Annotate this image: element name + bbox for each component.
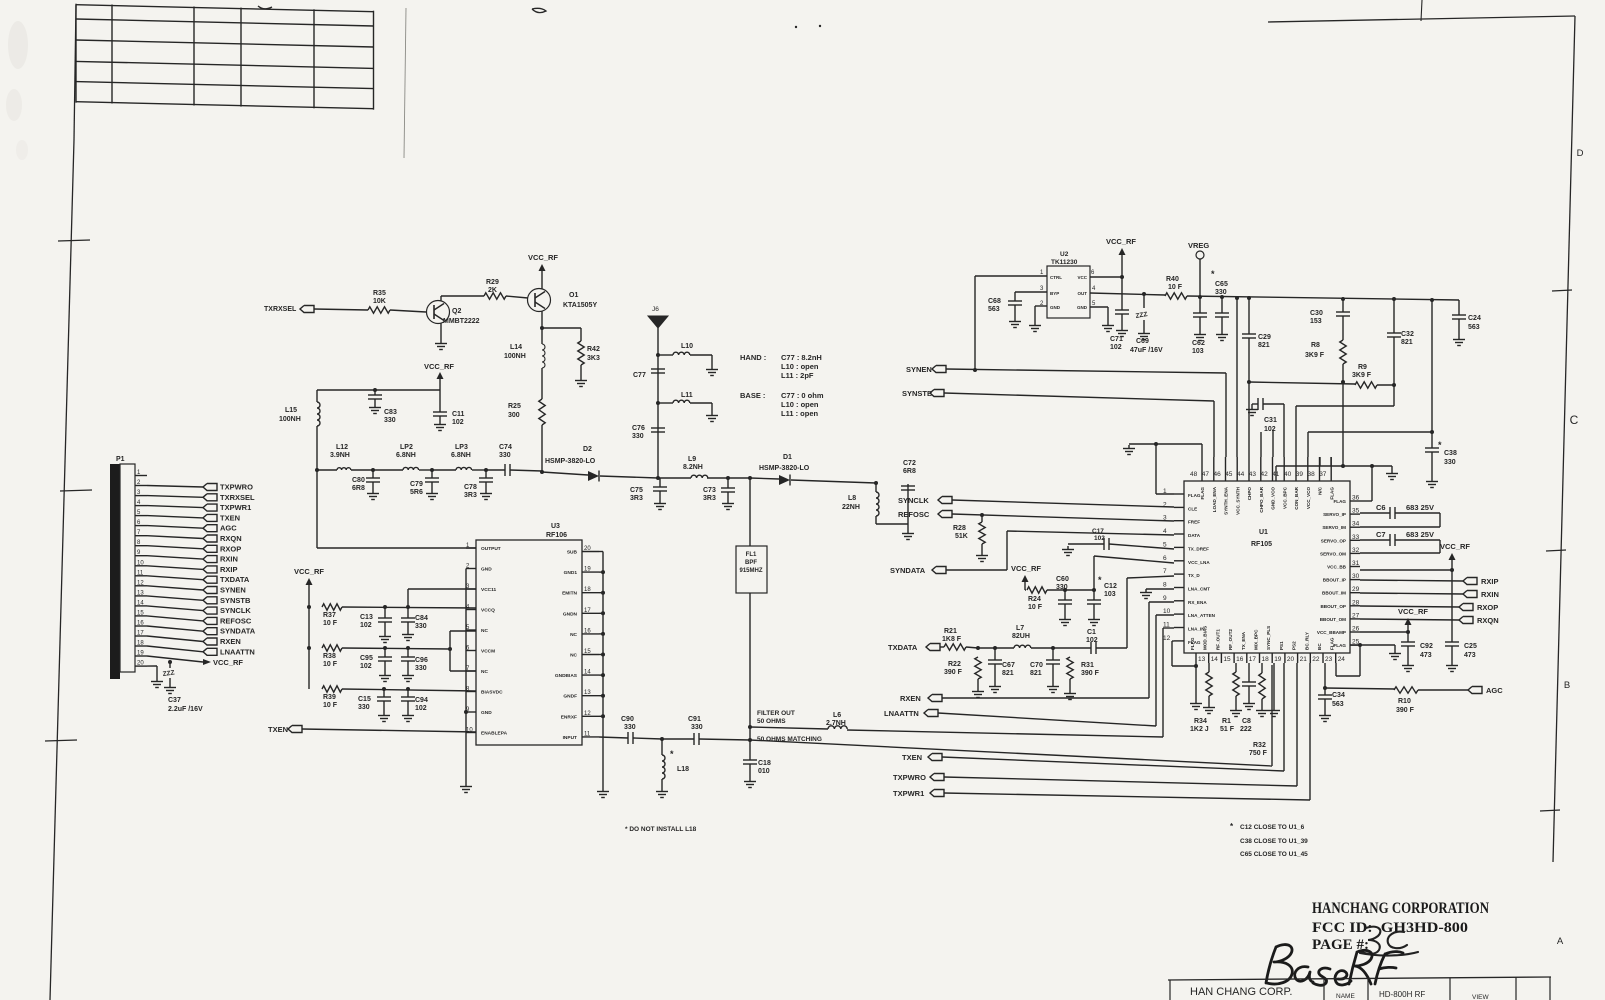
svg-text:330: 330 [1444,459,1456,466]
svg-text:VCCM: VCCM [481,649,495,655]
svg-text:683 25V: 683 25V [1406,530,1434,539]
svg-text:FLAG: FLAG [1333,643,1346,648]
svg-text:C77 : 8.2nH: C77 : 8.2nH [781,353,822,362]
svg-text:KTA1505Y: KTA1505Y [563,302,597,309]
svg-text:CHPO_BAR: CHPO_BAR [1259,486,1264,512]
svg-text:5: 5 [1163,541,1167,548]
svg-text:U2: U2 [1060,251,1069,258]
svg-text:10 F: 10 F [1028,604,1043,611]
svg-text:2.7NH: 2.7NH [826,720,846,727]
svg-text:1K8 F: 1K8 F [942,636,962,643]
svg-text:19: 19 [137,651,144,657]
svg-text:R25: R25 [508,403,521,410]
svg-text:AGC: AGC [1486,686,1503,695]
svg-text:VREG: VREG [1188,241,1209,250]
svg-text:45: 45 [1225,471,1233,478]
svg-text:12: 12 [137,580,144,586]
svg-text:821: 821 [1401,339,1413,346]
svg-text:13: 13 [1198,656,1206,663]
svg-text:C75: C75 [630,487,643,494]
svg-text:D1: D1 [783,454,792,461]
svg-text:473: 473 [1464,652,1476,659]
svg-text:R22: R22 [948,661,961,668]
svg-text:C90: C90 [621,716,634,723]
svg-text:SYNDATA: SYNDATA [890,566,926,575]
svg-text:29: 29 [1352,586,1360,593]
svg-text:10 F: 10 F [1168,284,1183,291]
svg-text:RXOP: RXOP [1477,603,1498,612]
svg-text:GNDF: GNDF [563,694,577,700]
svg-text:BPF: BPF [745,560,757,566]
svg-text:VCC_RF: VCC_RF [294,567,324,576]
svg-text:U3: U3 [551,523,560,530]
svg-text:TXRXSEL: TXRXSEL [264,306,297,313]
svg-text:14: 14 [584,670,591,676]
svg-text:6R8: 6R8 [903,468,916,475]
svg-text:50 OHMS: 50 OHMS [757,718,786,725]
svg-text:VIEW: VIEW [1472,994,1489,1000]
svg-text:17: 17 [584,608,591,614]
svg-text:9: 9 [1163,595,1167,602]
svg-text:TXEN: TXEN [268,725,288,734]
svg-text:R38: R38 [323,653,336,660]
svg-text:R24: R24 [1028,596,1041,603]
svg-text:821: 821 [1258,342,1270,349]
svg-text:D: D [1577,148,1584,159]
svg-text:C68: C68 [988,298,1001,305]
svg-text:30: 30 [1352,573,1360,580]
svg-text:L14: L14 [510,344,522,351]
svg-text:C65: C65 [1215,281,1228,288]
svg-text:L10 : open: L10 : open [781,362,819,371]
svg-text:RF_OUT2: RF_OUT2 [1228,629,1233,650]
svg-text:44: 44 [1237,471,1245,478]
svg-text:12: 12 [1163,635,1171,642]
svg-text:*: * [670,749,674,759]
svg-text:OUTPUT: OUTPUT [481,546,501,552]
svg-text:11: 11 [137,570,144,576]
svg-text:MIX_BPC: MIX_BPC [1254,629,1259,650]
svg-text:34: 34 [1352,521,1360,528]
svg-text:TXPWR1: TXPWR1 [893,789,924,798]
svg-text:TX_D: TX_D [1188,573,1200,578]
svg-text:C12 CLOSE TO U1_6: C12 CLOSE TO U1_6 [1240,824,1305,831]
svg-text:18: 18 [137,641,144,647]
svg-text:330: 330 [415,623,427,630]
svg-text:330: 330 [624,724,636,731]
svg-text:3K3: 3K3 [587,355,600,362]
svg-text:C30: C30 [1310,310,1323,317]
svg-text:VCC_LNA: VCC_LNA [1188,560,1210,565]
svg-text:102: 102 [452,419,464,426]
svg-text:C94: C94 [415,697,428,704]
svg-text:6: 6 [1163,555,1167,562]
svg-text:16: 16 [1236,656,1244,663]
svg-text:NAME: NAME [1336,993,1355,1000]
svg-text:15: 15 [137,610,144,616]
svg-text:563: 563 [988,306,1000,313]
svg-text:C7: C7 [1376,530,1386,539]
svg-text:10K: 10K [373,298,386,305]
svg-text:LNA_ATTEN: LNA_ATTEN [1188,613,1216,618]
svg-text:VCC_RF: VCC_RF [1440,542,1470,551]
svg-text:LOAD_ENA: LOAD_ENA [1212,486,1217,512]
svg-text:SERVO_IM: SERVO_IM [1322,525,1346,530]
svg-text:L11 : 2pF: L11 : 2pF [781,371,814,380]
svg-text:BBOUT_OP: BBOUT_OP [1320,604,1346,609]
svg-text:24: 24 [1338,656,1346,663]
svg-text:B: B [1564,680,1570,691]
svg-text:43: 43 [1249,471,1257,478]
svg-text:10 F: 10 F [323,661,338,668]
svg-text:C18: C18 [758,760,771,767]
svg-text:INPUT: INPUT [563,735,577,741]
svg-text:C: C [1570,413,1579,427]
svg-text:50 OHMS MATCHING: 50 OHMS MATCHING [757,736,822,743]
svg-text:6.8NH: 6.8NH [451,452,471,459]
svg-text:C38 CLOSE TO U1_39: C38 CLOSE TO U1_39 [1240,838,1308,845]
svg-text:4: 4 [1163,528,1167,535]
svg-text:FLAG: FLAG [1333,499,1346,504]
svg-text:TXPWRO: TXPWRO [893,773,926,782]
svg-text:14: 14 [137,600,144,606]
svg-text:3.9NH: 3.9NH [330,452,350,459]
svg-text:48: 48 [1190,471,1198,478]
svg-text:330: 330 [632,433,644,440]
svg-text:C83: C83 [384,409,397,416]
svg-text:41: 41 [1272,471,1280,478]
svg-text:C84: C84 [415,615,428,622]
svg-text:C17: C17 [1092,528,1104,535]
svg-text:C32: C32 [1401,331,1414,338]
svg-text:GNDBIAS: GNDBIAS [555,673,578,679]
svg-text:P1: P1 [116,456,125,463]
svg-text:10 F: 10 F [323,620,338,627]
svg-text:TX_DREF: TX_DREF [1188,546,1209,551]
svg-text:ENRXF: ENRXF [561,714,577,720]
svg-text:330: 330 [1056,584,1068,591]
svg-text:2.2uF /16V: 2.2uF /16V [168,706,203,713]
svg-text:C77: C77 [633,372,646,379]
svg-text:BC_RLY: BC_RLY [1304,632,1309,650]
svg-text:19: 19 [584,567,591,573]
svg-text:22NH: 22NH [842,504,860,511]
svg-text:TK11230: TK11230 [1051,259,1078,266]
svg-text:GND: GND [1050,305,1061,310]
svg-text:RXQN: RXQN [220,534,242,543]
svg-text:37: 37 [1319,471,1327,478]
svg-text:* DO NOT INSTALL L18: * DO NOT INSTALL L18 [625,826,697,833]
svg-text:*: * [1438,440,1442,450]
svg-text:R35: R35 [373,290,386,297]
svg-text:NC: NC [481,669,488,675]
svg-text:FCC ID: GH3HD-800: FCC ID: GH3HD-800 [1312,920,1468,936]
svg-text:10: 10 [137,560,144,566]
svg-text:VCC_BB: VCC_BB [1327,565,1347,570]
svg-text:31: 31 [1352,560,1360,567]
svg-text:RXEN: RXEN [220,637,241,646]
svg-text:12: 12 [584,711,591,717]
svg-text:C76: C76 [632,425,645,432]
svg-text:C34: C34 [1332,692,1345,699]
svg-text:VCCQ: VCCQ [481,608,495,614]
svg-text:R28: R28 [953,525,966,532]
svg-text:47: 47 [1202,471,1210,478]
svg-text:R34: R34 [1194,718,1207,725]
svg-text:FLAG: FLAG [1200,487,1205,500]
svg-text:VCC11: VCC11 [481,587,497,593]
svg-text:8: 8 [1163,582,1167,589]
svg-text:18: 18 [584,587,591,593]
svg-text:35: 35 [1352,508,1360,515]
svg-text:VCC_BBAMP: VCC_BBAMP [1317,630,1346,635]
svg-text:5R6: 5R6 [410,489,423,496]
svg-text:FREF: FREF [1188,520,1200,525]
svg-text:19: 19 [1274,656,1282,663]
svg-text:C79: C79 [410,481,423,488]
svg-text:*: * [1098,575,1102,585]
svg-text:C77 : 0 ohm: C77 : 0 ohm [781,391,824,400]
svg-text:10: 10 [1163,608,1171,615]
svg-text:FLAG: FLAG [1330,637,1335,650]
svg-text:16: 16 [137,621,144,627]
svg-text:C78: C78 [464,484,477,491]
svg-text:R29: R29 [486,279,499,286]
svg-text:BYP: BYP [1050,291,1059,296]
svg-text:MOD_BIAS: MOD_BIAS [1203,626,1208,650]
svg-text:FL1: FL1 [746,552,757,558]
svg-text:390 F: 390 F [1081,670,1100,677]
svg-text:330: 330 [691,724,703,731]
svg-text:C69: C69 [1136,338,1149,345]
svg-text:MMBT2222: MMBT2222 [443,318,480,325]
svg-text:RF_OUT1: RF_OUT1 [1215,629,1220,650]
svg-text:330: 330 [499,452,511,459]
svg-text:RXOP: RXOP [220,544,241,553]
svg-text:47uF /16V: 47uF /16V [1130,347,1163,354]
svg-text:REFOSC: REFOSC [220,616,252,625]
svg-text:C15: C15 [358,696,371,703]
svg-text:C25: C25 [1464,643,1477,650]
svg-text:TXEN: TXEN [220,513,240,522]
svg-text:915MHZ: 915MHZ [739,568,762,574]
svg-text:C80: C80 [352,477,365,484]
svg-text:C11: C11 [452,411,465,418]
svg-text:HD-800H RF: HD-800H RF [1379,990,1425,999]
svg-text:R40: R40 [1166,276,1179,283]
svg-text:J6: J6 [652,306,659,313]
svg-text:C62: C62 [1192,340,1205,347]
svg-text:38: 38 [1308,471,1316,478]
svg-text:LNAATTN: LNAATTN [220,647,255,656]
svg-text:HAN CHANG CORP.: HAN CHANG CORP. [1190,986,1292,998]
svg-text:D2: D2 [583,446,592,453]
svg-text:FLAG: FLAG [1188,493,1201,498]
svg-text:HSMP-3820-LO: HSMP-3820-LO [759,465,810,472]
svg-text:A: A [1557,936,1564,947]
svg-text:TXEN: TXEN [902,753,922,762]
svg-text:GND: GND [481,567,492,573]
svg-text:17: 17 [137,631,144,637]
svg-text:GND: GND [1077,305,1088,310]
svg-text:51 F: 51 F [1220,726,1235,733]
svg-text:330: 330 [384,417,396,424]
svg-text:R32: R32 [1253,742,1266,749]
svg-text:683 25V: 683 25V [1406,503,1434,512]
svg-text:CHPO: CHPO [1247,487,1252,501]
svg-text:SYNTH_ENA: SYNTH_ENA [1224,486,1229,515]
svg-text:SYNC_PLS: SYNC_PLS [1266,626,1271,650]
svg-text:L11: L11 [681,392,693,399]
svg-text:18: 18 [1262,656,1270,663]
svg-text:C8: C8 [1242,718,1251,725]
svg-text:CTRL: CTRL [1050,275,1062,280]
svg-text:TXDATA: TXDATA [220,575,250,584]
svg-text:BBOUT_IM: BBOUT_IM [1322,591,1346,596]
svg-text:10 F: 10 F [323,702,338,709]
svg-text:15: 15 [584,649,591,655]
svg-text:CON_BAR: CON_BAR [1294,486,1299,509]
svg-text:SYNCLK: SYNCLK [220,606,251,615]
svg-text:1K2 J: 1K2 J [1190,726,1209,733]
svg-text:SYNEN: SYNEN [906,365,932,374]
svg-text:O1: O1 [569,292,578,299]
svg-text:VCC_RF: VCC_RF [1398,607,1428,616]
svg-text:HSMP-3820-LO: HSMP-3820-LO [545,458,596,465]
svg-text:390 F: 390 F [944,669,963,676]
svg-text:C38: C38 [1444,450,1457,457]
svg-text:3R3: 3R3 [464,492,477,499]
svg-text:010: 010 [758,768,770,775]
svg-text:SYNDATA: SYNDATA [220,627,256,636]
svg-text:RXQN: RXQN [1477,616,1499,625]
svg-text:102: 102 [1110,344,1122,351]
svg-text:C13: C13 [360,614,373,621]
svg-text:C24: C24 [1468,315,1481,322]
svg-text:RXIP: RXIP [220,565,238,574]
svg-text:TXPWRO: TXPWRO [220,483,253,492]
svg-text:VCC_BPC: VCC_BPC [1282,486,1287,509]
svg-text:C74: C74 [499,444,512,451]
svg-text:300: 300 [508,412,520,419]
svg-text:14: 14 [1211,656,1219,663]
svg-text:102: 102 [1264,426,1276,433]
svg-text:U1: U1 [1259,529,1268,536]
svg-text:103: 103 [1192,348,1204,355]
svg-text:BBOUT_OM: BBOUT_OM [1320,617,1346,622]
svg-text:VCC_RF: VCC_RF [1011,564,1041,573]
svg-text:C95: C95 [360,655,373,662]
svg-text:36: 36 [1352,495,1360,502]
svg-text:FLAG: FLAG [1190,637,1195,650]
svg-text:C70: C70 [1030,662,1043,669]
svg-text:22: 22 [1312,656,1320,663]
svg-text:ENABLEPA: ENABLEPA [481,731,508,737]
svg-text:390 F: 390 F [1396,707,1415,714]
svg-text:L7: L7 [1016,625,1024,632]
svg-text:BC: BC [1317,643,1322,650]
svg-text:C72: C72 [903,460,916,467]
svg-text:REFOSC: REFOSC [898,510,930,519]
svg-text:R39: R39 [323,694,336,701]
svg-text:TXPWR1: TXPWR1 [220,503,251,512]
svg-text:SYNCLK: SYNCLK [898,496,929,505]
svg-text:TXRXSEL: TXRXSEL [220,493,255,502]
svg-text:C12: C12 [1104,583,1117,590]
svg-text:RXEN: RXEN [900,694,921,703]
svg-text:L9: L9 [688,456,696,463]
svg-text:RXIN: RXIN [220,555,238,564]
svg-text:100NH: 100NH [279,416,301,423]
svg-text:LP3: LP3 [455,444,468,451]
svg-text:C67: C67 [1002,662,1015,669]
svg-text:7: 7 [1163,568,1167,575]
svg-text:C60: C60 [1056,576,1069,583]
svg-text:C92: C92 [1420,643,1433,650]
svg-text:20: 20 [137,661,144,667]
svg-text:RX_ENA: RX_ENA [1188,600,1207,605]
svg-text:RF105: RF105 [1251,541,1272,548]
svg-text:102: 102 [360,663,372,670]
svg-text:L6: L6 [833,712,841,719]
svg-text:R21: R21 [944,628,957,635]
svg-text:PS2: PS2 [1292,641,1297,650]
svg-text:NC: NC [481,628,488,634]
svg-text:222: 222 [1240,726,1252,733]
svg-text:LNAATTN: LNAATTN [884,709,919,718]
svg-text:C29: C29 [1258,334,1271,341]
svg-text:17: 17 [1249,656,1257,663]
svg-text:VCC_RF: VCC_RF [213,658,243,667]
svg-text:3K9 F: 3K9 F [1305,352,1325,359]
svg-text:102: 102 [1094,535,1105,542]
svg-text:102: 102 [360,622,372,629]
svg-text:GND: GND [481,710,492,716]
svg-text:C91: C91 [688,716,701,723]
svg-text:SYNSTB: SYNSTB [220,596,251,605]
svg-text:821: 821 [1030,670,1042,677]
svg-text:L10: L10 [681,343,693,350]
svg-text:GND1: GND1 [564,570,578,576]
svg-text:32: 32 [1352,547,1360,554]
svg-text:3R3: 3R3 [630,495,643,502]
svg-text:3K9 F: 3K9 F [1352,372,1372,379]
svg-text:C71: C71 [1110,336,1123,343]
svg-text:R9: R9 [1358,364,1367,371]
svg-text:13: 13 [584,690,591,696]
svg-text:102: 102 [1086,637,1098,644]
svg-text:DATA: DATA [1188,533,1201,538]
svg-text:563: 563 [1468,324,1480,331]
svg-text:TXDATA: TXDATA [888,643,918,652]
svg-text:VCC_RF: VCC_RF [424,362,454,371]
svg-text:SERVO_OP: SERVO_OP [1321,538,1346,543]
svg-text:27: 27 [1352,612,1360,619]
svg-text:L12: L12 [336,444,348,451]
svg-text:26: 26 [1352,626,1360,633]
svg-text:RXIP: RXIP [1481,577,1499,586]
svg-text:HAND :: HAND : [740,353,766,362]
svg-text:R42: R42 [587,346,600,353]
svg-text:R8: R8 [1311,342,1320,349]
svg-text:21: 21 [1300,656,1308,663]
svg-text:EMITN: EMITN [562,591,577,597]
svg-text:821: 821 [1002,670,1014,677]
svg-text:C31: C31 [1264,417,1277,424]
svg-text:LP2: LP2 [400,444,413,451]
svg-text:23: 23 [1325,656,1333,663]
svg-text:VCC: VCC [1077,275,1087,280]
